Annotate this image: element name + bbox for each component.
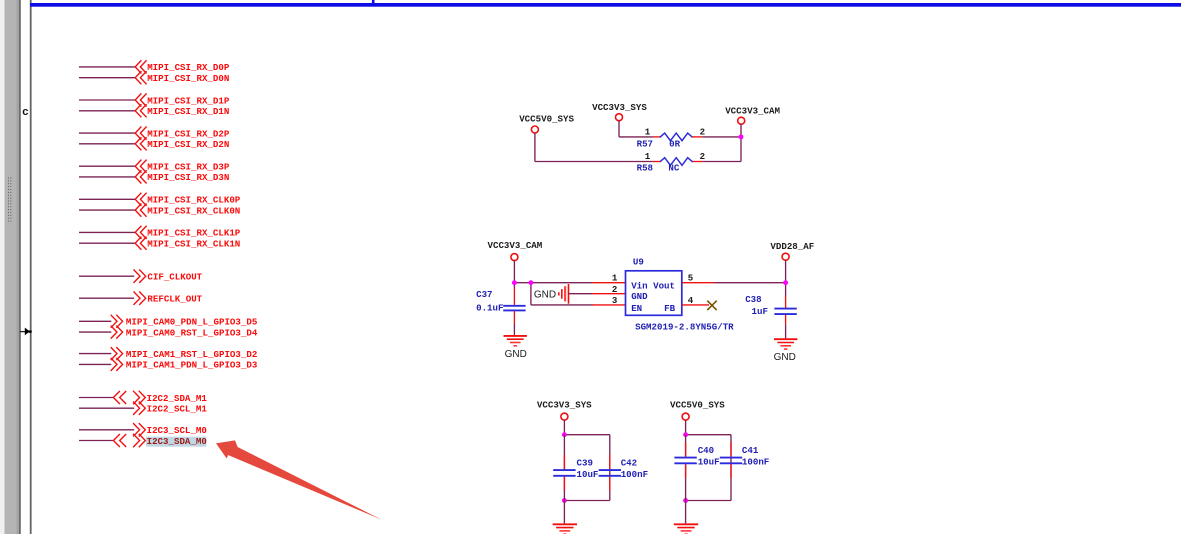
svg-text:R58: R58 xyxy=(637,163,653,174)
svg-text:GND: GND xyxy=(505,349,527,360)
capacitor C39 xyxy=(553,469,575,471)
svg-text:MIPI_CAM1_RST_L_GPIO3_D2: MIPI_CAM1_RST_L_GPIO3_D2 xyxy=(126,349,257,360)
port in-marker I2C3_SDA_M0 xyxy=(113,435,119,447)
resistor R58 pin2 stub xyxy=(692,161,702,163)
sheet left edge xyxy=(30,0,32,534)
splitter grip dots xyxy=(8,178,9,179)
svg-text:MIPI_CSI_RX_D1P: MIPI_CSI_RX_D1P xyxy=(147,95,230,106)
wire R57 to VCC3V3_CAM xyxy=(702,136,741,138)
wire MIPI_CSI_RX_D1P xyxy=(79,99,135,101)
junction R57/R58 xyxy=(739,134,744,139)
capacitor C38 stub bottom xyxy=(785,315,787,325)
svg-text:REFCLK_OUT: REFCLK_OUT xyxy=(147,294,202,305)
capacitor C42 leads xyxy=(609,455,611,469)
resistor R58 xyxy=(660,158,692,166)
resistor R57 pin2 stub xyxy=(692,136,702,138)
port CIF_CLKOUT xyxy=(134,270,140,282)
capacitor C38 stub top xyxy=(785,296,787,308)
port MIPI_CAM0_PDN_L_GPIO3_D5 xyxy=(111,315,117,327)
svg-text:EN: EN xyxy=(631,303,642,314)
wire EN branch xyxy=(530,283,532,305)
wire I2C2_SDA_M1 xyxy=(79,397,113,399)
svg-text:C41: C41 xyxy=(742,445,759,456)
sheet border line xyxy=(30,3,1181,7)
port MIPI_CAM1_RST_L_GPIO3_D2 xyxy=(111,348,117,360)
wire loop right xyxy=(609,435,611,501)
svg-text:R57: R57 xyxy=(637,138,653,149)
svg-text:VCC3V3_SYS: VCC3V3_SYS xyxy=(537,400,592,411)
svg-text:C38: C38 xyxy=(745,294,761,305)
port MIPI_CSI_RX_D1N xyxy=(135,105,141,117)
wire VCC3V3_CAM down xyxy=(740,124,742,162)
wire C37 to GND xyxy=(513,324,515,335)
svg-text:C39: C39 xyxy=(577,458,593,469)
svg-text:I2C3_SCL_M0: I2C3_SCL_M0 xyxy=(147,425,207,436)
wire MIPI_CSI_RX_D2N xyxy=(79,143,135,145)
wire MIPI_CSI_RX_D0N xyxy=(79,77,135,79)
junction top VCC5V0_SYS xyxy=(683,432,688,437)
capacitor C40 leads xyxy=(685,435,687,457)
port MIPI_CSI_RX_CLK1N xyxy=(135,237,141,249)
wire MIPI_CSI_RX_D1N xyxy=(79,110,135,112)
svg-text:SGM2019-2.8YN5G/TR: SGM2019-2.8YN5G/TR xyxy=(635,321,734,332)
svg-text:Vin: Vin xyxy=(631,280,647,291)
border grid tick xyxy=(372,0,375,3)
svg-text:MIPI_CSI_RX_D3P: MIPI_CSI_RX_D3P xyxy=(147,162,230,173)
port MIPI_CSI_RX_D0P xyxy=(135,61,141,73)
capacitor C41 xyxy=(720,457,742,459)
svg-text:GND: GND xyxy=(534,290,556,301)
capacitor C41 leads xyxy=(730,443,732,457)
pin 3 stub U9 xyxy=(592,304,625,306)
wire VCC3V3_CAM down xyxy=(513,260,515,288)
svg-text:MIPI_CSI_RX_D0P: MIPI_CSI_RX_D0P xyxy=(147,62,230,73)
wire MIPI_CSI_RX_CLK0P xyxy=(79,198,135,200)
wire MIPI_CSI_RX_CLK0N xyxy=(79,209,135,211)
svg-text:10uF: 10uF xyxy=(698,457,720,468)
wire to ground VCC5V0_SYS xyxy=(685,501,687,524)
svg-text:FB: FB xyxy=(664,303,675,314)
wire Vin rail xyxy=(514,282,592,284)
svg-text:MIPI_CSI_RX_CLK1P: MIPI_CSI_RX_CLK1P xyxy=(147,228,241,239)
ground VCC5V0_SYS xyxy=(674,523,698,525)
svg-text:MIPI_CSI_RX_D2P: MIPI_CSI_RX_D2P xyxy=(147,128,230,139)
wire loop bottom xyxy=(686,500,731,502)
wire VCC5V0_SYS down xyxy=(685,420,687,435)
svg-text:C37: C37 xyxy=(476,289,492,300)
left panel strip xyxy=(0,0,5,534)
wire MIPI_CAM1_RST_L_GPIO3_D2 xyxy=(79,353,111,355)
svg-text:0R: 0R xyxy=(669,138,680,149)
wire VDD28_AF down xyxy=(785,260,787,296)
svg-text:I2C3_SDA_M0: I2C3_SDA_M0 xyxy=(147,436,207,447)
wire MIPI_CAM0_RST_L_GPIO3_D4 xyxy=(79,331,111,333)
port MIPI_CSI_RX_D1P xyxy=(135,94,141,106)
svg-text:MIPI_CSI_RX_D2N: MIPI_CSI_RX_D2N xyxy=(147,139,229,150)
svg-text:1: 1 xyxy=(645,151,651,162)
wire loop right xyxy=(730,435,732,501)
junction Vout xyxy=(783,280,788,285)
resistor R57 pin1 stub xyxy=(653,136,660,138)
svg-text:Vout: Vout xyxy=(653,280,675,291)
svg-text:CIF_CLKOUT: CIF_CLKOUT xyxy=(147,272,202,283)
port I2C2_SDA_M1 xyxy=(134,391,140,403)
svg-text:GND: GND xyxy=(631,291,648,302)
port MIPI_CSI_RX_D0N xyxy=(135,72,141,84)
wire VCC3V3_SYS to R57 xyxy=(618,121,620,137)
wire to ground VCC3V3_SYS xyxy=(563,501,565,524)
svg-text:VCC5V0_SYS: VCC5V0_SYS xyxy=(519,113,574,124)
capacitor C37 xyxy=(503,305,525,307)
wire REFCLK_OUT xyxy=(79,297,134,299)
wire MIPI_CSI_RX_D3P xyxy=(79,165,135,167)
svg-text:100nF: 100nF xyxy=(742,457,769,468)
wire MIPI_CAM0_PDN_L_GPIO3_D5 xyxy=(79,320,111,322)
svg-text:C42: C42 xyxy=(621,458,637,469)
svg-text:VCC5V0_SYS: VCC5V0_SYS xyxy=(670,400,725,411)
wire I2C2_SCL_M1 xyxy=(79,407,134,409)
svg-text:2: 2 xyxy=(612,284,617,295)
margin position arrow xyxy=(20,331,25,333)
wire C38 to GND xyxy=(785,325,787,339)
wire loop top xyxy=(564,434,609,436)
port I2C3_SCL_M0 xyxy=(134,424,140,436)
wire MIPI_CSI_RX_CLK1N xyxy=(79,242,135,244)
svg-text:MIPI_CSI_RX_CLK0N: MIPI_CSI_RX_CLK0N xyxy=(147,205,240,216)
svg-text:MIPI_CSI_RX_D3N: MIPI_CSI_RX_D3N xyxy=(147,172,229,183)
port MIPI_CSI_RX_CLK0P xyxy=(135,193,141,205)
svg-text:10uF: 10uF xyxy=(577,469,599,480)
capacitor C37 stub bottom xyxy=(513,311,515,324)
svg-text:I2C2_SCL_M1: I2C2_SCL_M1 xyxy=(147,404,208,415)
port MIPI_CSI_RX_D3P xyxy=(135,160,141,172)
capacitor C37 stub top xyxy=(513,288,515,305)
wire R58 row xyxy=(702,161,741,163)
op-amp U9 body xyxy=(626,271,682,316)
wire VCC5V0_SYS to R58 xyxy=(534,133,536,162)
junction Vin rail 2 xyxy=(528,280,533,285)
port REFCLK_OUT xyxy=(134,292,140,304)
no-connect X pin4 xyxy=(707,301,716,310)
svg-text:MIPI_CAM0_RST_L_GPIO3_D4: MIPI_CAM0_RST_L_GPIO3_D4 xyxy=(126,327,258,338)
svg-text:1: 1 xyxy=(612,273,618,284)
pin 2 stub U9 xyxy=(592,293,625,295)
svg-text:2: 2 xyxy=(700,127,705,138)
wire MIPI_CSI_RX_D0P xyxy=(79,66,135,68)
svg-text:4: 4 xyxy=(688,295,694,306)
wire MIPI_CSI_RX_D3N xyxy=(79,176,135,178)
svg-text:0.1uF: 0.1uF xyxy=(476,302,503,313)
svg-text:c: c xyxy=(22,106,28,118)
ground below C37 xyxy=(504,335,527,337)
wire loop top xyxy=(686,434,731,436)
svg-text:I2C2_SDA_M1: I2C2_SDA_M1 xyxy=(147,393,208,404)
svg-text:C40: C40 xyxy=(698,445,714,456)
port MIPI_CAM0_RST_L_GPIO3_D4 xyxy=(111,326,117,338)
resistor R58 pin1 stub xyxy=(653,161,660,163)
junction bottom VCC5V0_SYS xyxy=(683,498,688,503)
port MIPI_CSI_RX_CLK1P xyxy=(135,226,141,238)
svg-text:1uF: 1uF xyxy=(752,306,768,317)
wire MIPI_CSI_RX_CLK1P xyxy=(79,231,135,233)
port MIPI_CSI_RX_D2P xyxy=(135,127,141,139)
svg-text:100nF: 100nF xyxy=(621,469,648,480)
svg-text:VDD28_AF: VDD28_AF xyxy=(770,241,814,252)
svg-text:MIPI_CAM0_PDN_L_GPIO3_D5: MIPI_CAM0_PDN_L_GPIO3_D5 xyxy=(126,317,257,328)
wire I2C3_SDA_M0 xyxy=(79,440,113,442)
capacitor C39 leads xyxy=(563,435,565,470)
junction bottom VCC3V3_SYS xyxy=(562,498,567,503)
ground below C38 xyxy=(774,338,797,340)
wire CIF_CLKOUT xyxy=(79,275,134,277)
junction Vin rail 1 xyxy=(512,280,517,285)
svg-text:VCC3V3_CAM: VCC3V3_CAM xyxy=(725,106,780,117)
wire I2C3_SCL_M0 xyxy=(79,429,134,431)
svg-text:MIPI_CAM1_PDN_L_GPIO3_D3: MIPI_CAM1_PDN_L_GPIO3_D3 xyxy=(126,360,258,371)
svg-text:U9: U9 xyxy=(633,256,644,267)
wire VCC3V3_SYS down xyxy=(563,420,565,435)
pin 4 stub U9 xyxy=(682,304,709,306)
wire GND to pin2 xyxy=(569,293,593,295)
svg-text:MIPI_CSI_RX_D0N: MIPI_CSI_RX_D0N xyxy=(147,73,229,84)
svg-text:NC: NC xyxy=(668,163,679,174)
svg-text:VCC3V3_CAM: VCC3V3_CAM xyxy=(488,240,543,251)
port I2C3_SDA_M0 xyxy=(134,434,140,446)
wire Vout rail xyxy=(715,282,786,284)
port MIPI_CSI_RX_CLK0N xyxy=(135,204,141,216)
svg-text:MIPI_CSI_RX_CLK0P: MIPI_CSI_RX_CLK0P xyxy=(147,195,241,206)
svg-text:MIPI_CSI_RX_D1N: MIPI_CSI_RX_D1N xyxy=(147,106,229,117)
svg-text:3: 3 xyxy=(612,295,618,306)
annotation arrow xyxy=(216,440,382,519)
capacitor C40 xyxy=(674,457,696,459)
svg-text:VCC3V3_SYS: VCC3V3_SYS xyxy=(592,102,647,113)
capacitor C38 xyxy=(774,308,796,310)
svg-text:GND: GND xyxy=(774,352,796,363)
svg-text:MIPI_CSI_RX_CLK1N: MIPI_CSI_RX_CLK1N xyxy=(147,239,240,250)
pin 1 stub U9 xyxy=(592,282,625,284)
capacitor C42 xyxy=(599,469,621,471)
port MIPI_CSI_RX_D3N xyxy=(135,171,141,183)
svg-text:5: 5 xyxy=(688,273,693,284)
port I2C2_SCL_M1 xyxy=(134,402,140,414)
pin 5 stub U9 xyxy=(682,282,715,284)
ground VCC3V3_SYS xyxy=(553,523,577,525)
wire MIPI_CAM1_PDN_L_GPIO3_D3 xyxy=(79,363,111,365)
resistor R57 xyxy=(660,133,692,141)
port MIPI_CSI_RX_D2N xyxy=(135,138,141,150)
port in-marker I2C2_SDA_M1 xyxy=(113,392,119,404)
port MIPI_CAM1_PDN_L_GPIO3_D3 xyxy=(111,358,117,370)
svg-text:1: 1 xyxy=(645,127,651,138)
selection highlight xyxy=(146,437,206,447)
svg-text:2: 2 xyxy=(700,151,705,162)
wire MIPI_CSI_RX_D2P xyxy=(79,132,135,134)
junction top VCC3V3_SYS xyxy=(562,432,567,437)
wire loop bottom xyxy=(564,500,609,502)
